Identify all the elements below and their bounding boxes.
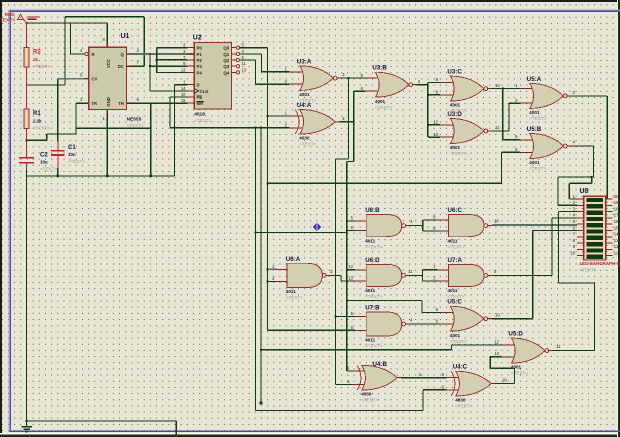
svg-text:U5:C: U5:C: [447, 299, 462, 306]
resistor R1: [24, 109, 29, 129]
wire U3:D out: [492, 130, 509, 132]
wire bottom drop offscreen: [175, 421, 177, 437]
gate U4:C XOR: [445, 364, 495, 409]
wire PE vertical: [169, 97, 171, 128]
wire U5:C pin8 tap run: [347, 299, 422, 301]
svg-text:15: 15: [614, 225, 619, 230]
svg-text:U4:C: U4:C: [453, 364, 468, 371]
resistor R2: [24, 48, 29, 68]
wire R2 node to discharge riser: [27, 84, 65, 86]
svg-text:12: 12: [433, 119, 438, 124]
wire U4:A out east: [339, 121, 354, 123]
pin numbers U2: [181, 43, 247, 103]
svg-text:<TEXT>: <TEXT>: [375, 105, 392, 110]
wire trigger run: [47, 133, 76, 135]
capacitor C1: [51, 151, 64, 155]
svg-text:U6:C: U6:C: [448, 207, 463, 214]
gate U3:B NOR: [365, 65, 417, 110]
gate U6:C NAND: [437, 207, 492, 249]
svg-text:10: 10: [494, 218, 499, 223]
wire Q0 run: [240, 47, 268, 49]
svg-text:TH: TH: [118, 101, 124, 106]
wire pin 7 stub run: [127, 65, 145, 67]
wire Q0 bus vertical: [266, 48, 268, 331]
pin numbers U7:A: [433, 264, 497, 280]
timer U1 NE555: [84, 43, 131, 115]
svg-text:4001: 4001: [450, 145, 461, 150]
gate U6:B NAND: [355, 207, 410, 249]
svg-text:13: 13: [348, 275, 353, 280]
window edge top: [0, 0, 620, 2]
svg-text:U3:B: U3:B: [372, 65, 387, 72]
wire discharge riser vertical: [64, 17, 66, 85]
svg-text:U6:B: U6:B: [365, 207, 380, 214]
wire +V vertical to R2: [26, 23, 28, 48]
svg-text:13: 13: [242, 67, 247, 72]
wire C2 bottom lead: [26, 163, 28, 170]
svg-text:<TEXT>: <TEXT>: [361, 398, 378, 403]
wire U8 pin6 stub run: [533, 230, 577, 232]
wire U3:C drop to U5:B: [502, 89, 504, 140]
wire U8 pin1 drop: [568, 183, 570, 199]
pin numbers U5:D: [494, 339, 561, 356]
svg-text:U5:B: U5:B: [527, 126, 542, 133]
svg-text:10: 10: [495, 312, 500, 317]
wire U4:B out to U4:C pin8: [401, 377, 446, 379]
wire U1 reset horizontal to pin 4: [71, 53, 85, 55]
svg-text:<TEXT>: <TEXT>: [127, 123, 144, 128]
wire U8 pin1 tap link: [591, 177, 593, 183]
svg-text:<TEXT>: <TEXT>: [365, 344, 382, 349]
wire U4:C return west: [490, 367, 514, 369]
wire discharge drop to pin 7: [143, 17, 145, 66]
wire U5:B pin5 run: [503, 139, 520, 141]
wire U3:C pin9 run: [428, 94, 440, 96]
svg-text:4011: 4011: [365, 338, 375, 343]
bargraph U8 LED-BARGRAPH: [577, 196, 613, 260]
wire U8 pin2 run: [558, 204, 577, 206]
svg-text:R: R: [92, 52, 95, 57]
svg-text:18: 18: [614, 206, 619, 211]
svg-text:U5:D: U5:D: [508, 331, 523, 338]
wire TH stub: [127, 102, 151, 104]
svg-text:U2: U2: [193, 35, 202, 42]
pin numbers U8 right: [614, 194, 619, 256]
svg-text:4001: 4001: [511, 365, 522, 370]
wire C1 bottom lead: [57, 155, 59, 168]
svg-text:<TEXT>: <TEXT>: [33, 126, 50, 131]
wire Q1 drop: [260, 54, 262, 72]
wire U6:D fanout vertical: [422, 270, 424, 281]
svg-text:11: 11: [495, 125, 500, 130]
wire U6:D pin12 tap: [347, 269, 355, 271]
wire U4:C out east: [495, 383, 514, 385]
wire R1 bottom lead: [26, 129, 28, 158]
svg-text:4030: 4030: [361, 392, 372, 397]
wire U7:A pin2 run: [423, 280, 438, 282]
node dangling end: [260, 402, 263, 405]
svg-text:20: 20: [614, 194, 619, 199]
wire R2 bottom lead: [26, 67, 28, 85]
svg-text:12: 12: [181, 67, 186, 72]
pin numbers U3:A: [285, 67, 346, 85]
wire Q2 drop: [254, 60, 256, 84]
wire U5:B pin6 stub run: [501, 151, 519, 153]
svg-text:10: 10: [181, 92, 186, 97]
svg-text:Q2: Q2: [223, 58, 229, 63]
svg-text:4018: 4018: [194, 112, 205, 118]
wire U6:B pin6 tap: [347, 229, 355, 231]
wire D run: [175, 84, 187, 86]
gate U6:D NAND: [355, 257, 410, 299]
wire U4:B pin5 feed: [347, 370, 352, 372]
svg-text:4001: 4001: [529, 160, 540, 165]
svg-text:10: 10: [570, 251, 575, 256]
svg-text:TEXT>: TEXT>: [0, 18, 15, 24]
ground symbol: [21, 421, 32, 432]
pin numbers U1: [80, 37, 139, 121]
wire Q drop to CLK: [149, 54, 151, 91]
wire P2 run: [157, 59, 187, 61]
pin numbers U4:B: [347, 366, 422, 385]
svg-text:11: 11: [242, 61, 247, 66]
wire U4:B pin6 feed: [336, 384, 352, 386]
ground bus: [27, 175, 175, 177]
svg-text:U8: U8: [580, 188, 589, 195]
wire P0 tie vertical: [156, 48, 158, 73]
pin numbers U6:C: [433, 215, 499, 231]
svg-text:U6:D: U6:D: [365, 257, 380, 264]
wire U1 Q to U2 P1: [127, 53, 195, 55]
svg-text:13: 13: [494, 351, 499, 356]
svg-text:MR: MR: [197, 101, 205, 106]
svg-text:2.2k: 2.2k: [33, 119, 42, 124]
wire U5:B drop: [592, 146, 594, 177]
wire U5:C pin8 drop: [421, 300, 423, 312]
svg-text:Q0: Q0: [223, 46, 229, 51]
wire trigger vertical: [75, 103, 77, 134]
svg-text:C2: C2: [40, 153, 48, 159]
svg-text:U3:A: U3:A: [297, 58, 312, 65]
gate U5:B NOR: [520, 126, 572, 171]
wire MR run: [151, 102, 187, 104]
gate U3:D NOR: [440, 111, 492, 156]
svg-text:TR: TR: [92, 101, 98, 106]
svg-text:11: 11: [614, 251, 619, 256]
svg-text:LED-BARGRAPH-GR: LED-BARGRAPH-GR: [580, 261, 620, 266]
wire U3:A bus down: [335, 159, 337, 385]
pin numbers U3:B: [361, 73, 421, 91]
wire bottom run: [27, 420, 177, 422]
svg-text:R2: R2: [33, 50, 41, 56]
wire ground left drop: [26, 176, 28, 421]
wire Q1 to U3:A pin 1: [261, 71, 289, 73]
wire gnd bus B vertical: [260, 128, 262, 403]
wire U6:B out: [410, 225, 423, 227]
pin numbers U4:A: [285, 111, 346, 128]
svg-text:Q1: Q1: [223, 52, 229, 57]
wire discharge top run: [65, 16, 144, 18]
svg-text:4001: 4001: [299, 92, 310, 97]
wire U6:C pin9 run: [423, 230, 438, 232]
svg-text:D: D: [197, 83, 200, 88]
wire U8 pin3 stub run: [559, 211, 577, 213]
svg-text:19: 19: [614, 200, 619, 205]
gate U3:C NOR: [440, 69, 492, 114]
wire R1 node riser: [46, 134, 48, 140]
wire U4:A bus down: [346, 162, 348, 371]
pin numbers U6:B: [351, 216, 414, 231]
node +V junction: [26, 22, 28, 24]
pin numbers U7:B: [351, 311, 414, 330]
wire Q0 tap east run to U5:B: [267, 182, 501, 184]
wire U5:C out east: [492, 318, 533, 320]
wire U3:B fanout vertical: [427, 82, 429, 137]
wire U5:D pin13 run: [490, 356, 501, 358]
window edge bottom: [0, 434, 620, 437]
svg-text:4011: 4011: [365, 238, 375, 243]
svg-text:<TEXT>: <TEXT>: [365, 294, 382, 299]
svg-text:<TEXT>: <TEXT>: [40, 167, 57, 172]
wire U3:C out to U5:A pin1: [492, 88, 520, 90]
svg-text:13: 13: [433, 132, 438, 137]
wire U8 pin4 riser: [551, 218, 553, 276]
wire U5:A drop to U8 pin20: [606, 96, 608, 199]
svg-text:<TEXT>: <TEXT>: [580, 267, 597, 272]
wire crossbar to mid bus: [255, 231, 346, 233]
svg-text:P2: P2: [197, 58, 203, 63]
svg-text:4001: 4001: [450, 333, 461, 338]
svg-text:13: 13: [614, 238, 619, 243]
pin numbers U8 left: [570, 194, 575, 256]
wire U5:A out east: [571, 95, 607, 97]
wire gnd spur east: [170, 127, 290, 129]
svg-text:U4:B: U4:B: [373, 361, 388, 368]
wire U5:B pin6 riser: [500, 152, 502, 183]
svg-text:4011: 4011: [448, 238, 458, 243]
svg-text:4030: 4030: [299, 136, 310, 141]
svg-text:4011: 4011: [448, 288, 458, 293]
wire U6:C out to U8 pin5: [492, 224, 577, 226]
wire Q2 run: [240, 59, 256, 61]
svg-text:<TEXT>: <TEXT>: [68, 159, 85, 164]
svg-text:10: 10: [495, 83, 500, 88]
svg-text:15: 15: [181, 98, 186, 103]
wire U5:D riser: [594, 283, 596, 351]
svg-text:<TEXT>: <TEXT>: [511, 371, 528, 376]
wire U3:A jog: [336, 158, 349, 160]
gate U7:B NAND: [355, 305, 410, 349]
gate U4:A XOR: [290, 102, 340, 147]
wire Q1 run: [240, 53, 262, 55]
wire U5:D pin12 long run: [261, 349, 452, 351]
svg-text:R1: R1: [33, 111, 41, 117]
wire CV horizontal: [58, 78, 89, 80]
svg-text:U7:A: U7:A: [448, 257, 463, 264]
gate U5:A NOR: [520, 76, 572, 121]
wire U4:A out riser to U3:B pin6: [353, 91, 355, 161]
svg-text:10u: 10u: [40, 160, 48, 165]
wire U6:C pin8 run: [423, 219, 438, 221]
wire gnd bus A vertical: [254, 128, 256, 411]
svg-text:4011: 4011: [365, 288, 375, 293]
wire R2 to R1 lead: [26, 85, 28, 109]
wire U4:A jog: [347, 161, 354, 163]
svg-text:VCC: VCC: [106, 59, 111, 68]
wire U4:C riser: [513, 368, 515, 383]
wire U1 reset branch vertical: [70, 23, 72, 54]
svg-text:P0: P0: [197, 46, 203, 51]
wire U5:B return west: [558, 176, 593, 178]
gate U3:A NOR: [290, 58, 342, 103]
svg-text:12: 12: [494, 339, 499, 344]
gate U5:D NOR: [501, 331, 553, 376]
wire CV to C1 vertical: [57, 79, 59, 142]
svg-text:C1: C1: [68, 145, 76, 151]
svg-text:12: 12: [348, 264, 353, 269]
wire U5:D pin12 jog: [451, 345, 453, 350]
wire U6:D pin13 run: [341, 280, 355, 282]
svg-text:U3:C: U3:C: [447, 69, 462, 76]
wire U5:C pin8 stub run: [422, 311, 440, 313]
svg-text:U5:A: U5:A: [527, 76, 542, 83]
svg-text:10: 10: [502, 377, 507, 382]
svg-text:16: 16: [614, 219, 619, 224]
capacitor C2: [19, 158, 34, 163]
wire P4 run: [157, 71, 187, 73]
wire TR TH tie: [76, 127, 151, 129]
svg-text:12: 12: [614, 244, 619, 249]
svg-text:<TEXT>: <TEXT>: [529, 166, 546, 171]
svg-text:11: 11: [556, 344, 561, 349]
wire U3:D riser to U5:A pin2: [508, 103, 510, 131]
wire U3:A out drop: [348, 78, 350, 159]
wire U6:A jog drop: [340, 275, 342, 281]
svg-text:14: 14: [181, 86, 186, 91]
wire U8 pin3 riser: [558, 212, 560, 283]
wire Q2 to U3:A pin 2: [255, 83, 289, 85]
wire U1 GND drop: [106, 109, 108, 175]
svg-text:U4:A: U4:A: [297, 102, 312, 109]
wire U6:B pin5 tap: [347, 220, 355, 222]
svg-text:U6:A: U6:A: [286, 256, 301, 263]
wire U8 pin2 drop: [557, 177, 559, 205]
svg-text:<TEXT>: <TEXT>: [450, 339, 467, 344]
window edge left: [0, 0, 2, 437]
wire P0 run: [157, 47, 187, 49]
wire MR vertical: [150, 103, 152, 176]
wire U7:B pin6 run: [267, 329, 355, 331]
wire U3:D pin13 run: [428, 136, 440, 138]
svg-text:Q4: Q4: [223, 70, 229, 75]
svg-text:PE: PE: [197, 95, 203, 100]
svg-text:<TEXT>: <TEXT>: [455, 404, 472, 409]
wire U4:C pin9 long run: [255, 409, 423, 411]
wire U3:D pin12 run: [428, 124, 440, 126]
wire +V rail to U1 VCC: [27, 22, 108, 24]
wire U8 pin1 run west: [569, 182, 591, 184]
svg-text:4030: 4030: [455, 398, 466, 403]
svg-text:<TEXT>: <TEXT>: [299, 142, 316, 147]
svg-text:4001: 4001: [450, 103, 461, 108]
wire U1 VCC drop pin 8: [106, 23, 108, 47]
svg-text:<TEXT>: <TEXT>: [33, 64, 50, 69]
svg-text:P3: P3: [197, 64, 203, 69]
svg-text:10n: 10n: [68, 152, 76, 157]
wire U5:B out east: [571, 145, 593, 147]
wire D vertical: [174, 85, 176, 176]
pin numbers U3:C: [436, 77, 501, 95]
svg-text:CLK: CLK: [200, 89, 210, 94]
wire TH vertical: [150, 103, 152, 128]
svg-text:RED: RED: [5, 12, 16, 18]
wire U3:C pin8 run: [428, 81, 440, 83]
svg-text:4001: 4001: [375, 99, 386, 104]
gate U5:C NOR: [440, 299, 492, 344]
wire U3:B out: [417, 84, 428, 86]
wire U3:B pin6 run: [354, 90, 365, 92]
svg-text:Q3: Q3: [223, 64, 229, 69]
node R1 bottom: [26, 139, 28, 141]
svg-text:<TEXT>: <TEXT>: [448, 244, 465, 249]
svg-text:DC: DC: [118, 64, 124, 69]
svg-text:<TEXT>: <TEXT>: [450, 151, 467, 156]
pin numbers U4:C: [442, 372, 508, 389]
wire C2 to ground bus: [26, 170, 28, 176]
gate U4:B XOR: [351, 365, 401, 402]
wire U6:B fanout vertical: [422, 220, 424, 231]
svg-text:11: 11: [408, 269, 413, 274]
power terminal value dashes: [28, 16, 40, 18]
gate U7:A NAND: [437, 257, 492, 299]
wire U5:D pin13 riser: [489, 357, 491, 368]
svg-text:U7:B: U7:B: [365, 305, 380, 312]
wire U7:A pin1 run: [423, 269, 438, 271]
svg-text:NE555: NE555: [127, 117, 142, 123]
wire U5:C riser to U8 pin6: [532, 231, 534, 319]
wire U7:B out to U5:C pin9: [410, 323, 441, 325]
wire U5:A pin2 run: [509, 102, 520, 104]
wire U8 pin1 stub run: [569, 198, 577, 200]
svg-text:1k: 1k: [33, 57, 38, 62]
svg-text:P1: P1: [197, 52, 203, 57]
svg-text:U3:D: U3:D: [447, 111, 462, 118]
wire P3 tap: [150, 65, 187, 67]
wire U8 pin4 stub run: [552, 217, 577, 219]
svg-text:GND: GND: [106, 97, 111, 106]
wire U6:A pin2 tap: [267, 280, 276, 282]
wire U5:D out east: [553, 350, 595, 352]
wire PE run: [170, 96, 187, 98]
wire CLK run: [150, 90, 187, 92]
svg-text:<TEXT>: <TEXT>: [194, 118, 211, 123]
window edge right: [618, 0, 620, 437]
wire U7:A out to U8 pin4 run: [492, 274, 552, 276]
wire U3:A out to U3:B: [341, 77, 365, 79]
svg-text:U1: U1: [121, 33, 130, 40]
svg-text:4001: 4001: [529, 110, 540, 115]
wire TR stub: [76, 102, 89, 104]
pin numbers U5:B: [515, 134, 575, 152]
wire U4:A pin1 tap: [267, 115, 289, 117]
wire R1 node east: [27, 139, 47, 141]
gate U6:A NAND: [276, 256, 331, 300]
svg-text:P4: P4: [197, 70, 203, 75]
wire U7:B pin5 tap: [336, 316, 356, 318]
svg-text:CV: CV: [92, 77, 98, 82]
pin numbers U3:D: [433, 119, 500, 136]
svg-text:17: 17: [614, 213, 619, 218]
